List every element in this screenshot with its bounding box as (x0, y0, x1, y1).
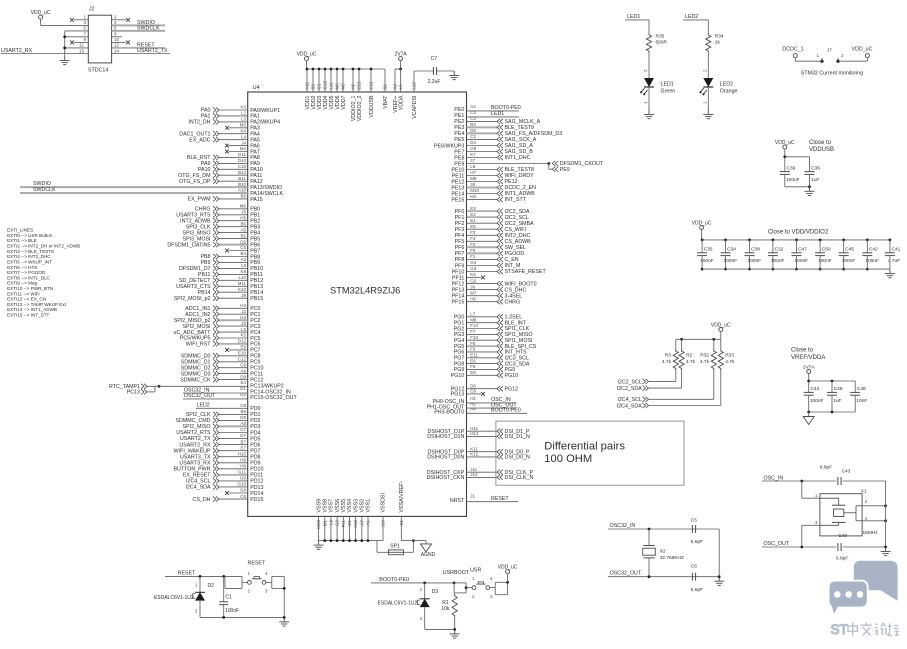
pin PA11 (B12) (178, 170, 262, 179)
pin DSIHOST_CKP (J11) (427, 467, 534, 476)
wire VDDUSB cap rail (783, 155, 809, 171)
pin PD8 (H10) (180, 451, 261, 460)
svg-text:C4: C4 (470, 110, 476, 115)
svg-text:D3: D3 (470, 128, 476, 133)
pin VSS2 (A7) (359, 499, 365, 542)
pin PF13 (J6) (452, 284, 527, 293)
svg-text:A1: A1 (365, 520, 370, 526)
svg-text:C32: C32 (775, 247, 784, 253)
svg-text:G3: G3 (470, 266, 477, 271)
svg-text:J8: J8 (470, 182, 475, 187)
note box differential pairs 100 OHM (496, 421, 684, 485)
pin PE8 (K7) (454, 152, 530, 161)
svg-text:I2C4_SCL: I2C4_SCL (617, 397, 641, 403)
pin PB15 (J9) (174, 293, 264, 302)
svg-text:VDDA: VDDA (399, 95, 405, 110)
svg-text:C12: C12 (238, 357, 247, 362)
svg-text:VSSDSI: VSSDSI (381, 493, 387, 512)
pin PH1-OSC_OUT (H2) / net OSC_OUT (427, 401, 518, 410)
svg-text:J5: J5 (241, 210, 246, 215)
pin VDD6 (M2) (335, 68, 341, 110)
wire VREF cap rail (807, 380, 855, 393)
pin PG7 (E11) (454, 352, 529, 361)
svg-text:SWDCLK: SWDCLK (33, 187, 56, 193)
capacitor C6 5.6pF (691, 564, 703, 594)
svg-text:F3: F3 (470, 230, 476, 235)
svg-text:1uF: 1uF (811, 177, 819, 183)
svg-text:1k: 1k (715, 40, 721, 46)
note Close to VDD/VDDIO2 (768, 230, 829, 236)
svg-text:B4: B4 (240, 251, 246, 256)
svg-text:EXTI13 --> TAMP;WKUP Ext: EXTI13 --> TAMP;WKUP Ext (7, 302, 67, 307)
watermark logo bubbles (829, 561, 898, 617)
svg-text:VDDUSB: VDDUSB (809, 147, 834, 153)
svg-text:PD4: PD4 (250, 430, 260, 436)
svg-text:R2: R2 (686, 353, 692, 359)
svg-text:C9: C9 (470, 389, 476, 394)
pin PE2 (C3) (454, 116, 540, 125)
net SWDCLK from J2 pin 6 (112, 25, 165, 31)
svg-text:R3: R3 (665, 353, 671, 359)
svg-text:PC13: PC13 (127, 390, 140, 396)
svg-text:VDD_uC: VDD_uC (31, 10, 51, 16)
svg-text:D10: D10 (238, 158, 247, 163)
net SWDIO from J2 pin 4 (112, 20, 165, 26)
connector J2 STDC14 (88, 7, 112, 74)
svg-text:SP1: SP1 (390, 544, 400, 550)
svg-text:J2: J2 (241, 309, 246, 314)
svg-text:PF13: PF13 (452, 287, 465, 293)
svg-text:J1: J1 (470, 494, 475, 499)
ground reset circuit (279, 617, 289, 626)
note EXTI lines table (7, 228, 80, 318)
svg-text:12: 12 (114, 43, 120, 48)
net RESET (reset circuit) (165, 571, 225, 578)
svg-text:LED1: LED1 (627, 14, 640, 20)
svg-text:PF11: PF11 (452, 275, 464, 281)
button USR (USRBOOT) (443, 568, 509, 600)
fuse SP1 (377, 539, 415, 555)
pin PG1 (M8) (454, 317, 527, 326)
svg-text:F7: F7 (470, 329, 476, 334)
svg-text:J3: J3 (241, 321, 246, 326)
pin VSS7 (L6) (328, 499, 334, 542)
svg-text:M12: M12 (316, 520, 321, 529)
pin DSIHOST_CKN (J12) (427, 472, 534, 481)
svg-text:C6: C6 (691, 564, 697, 570)
svg-text:K9: K9 (240, 269, 246, 274)
svg-text:VSS6: VSS6 (335, 499, 341, 513)
svg-text:PD0: PD0 (250, 406, 260, 412)
svg-text:PG12: PG12 (505, 386, 519, 392)
svg-text:F10: F10 (470, 335, 478, 340)
svg-text:PA15: PA15 (250, 197, 263, 203)
capacitor C42 100nF (862, 239, 879, 271)
svg-text:H7: H7 (470, 170, 476, 175)
pin PA3 (M3) (225, 123, 260, 132)
net BOOT0-PE0 (boot circuit) (371, 577, 456, 584)
pin PB8 (B4) (200, 251, 260, 260)
svg-text:SPI2_MOSI_p2: SPI2_MOSI_p2 (174, 296, 211, 302)
svg-text:D12: D12 (238, 339, 247, 344)
J2 ground bus pins 5,7,9,11 (63, 26, 88, 56)
svg-text:A2: A2 (470, 104, 476, 109)
svg-text:STSAFE_RESET: STSAFE_RESET (505, 269, 547, 275)
svg-text:DFSDM1_DATIN5: DFSDM1_DATIN5 (167, 242, 210, 248)
svg-text:C8: C8 (240, 403, 246, 408)
svg-text:G11: G11 (238, 470, 247, 475)
svg-text:C11: C11 (369, 81, 374, 89)
svg-text:USR: USR (470, 568, 481, 574)
pin PA15 (B9) (188, 194, 263, 203)
pin VDD4 (G12) (323, 68, 329, 110)
pin PA10 (C10) (198, 164, 263, 173)
svg-text:EXTI2 --> INT2_DH or INT2_ADWB: EXTI2 --> INT2_DH or INT2_ADWB (7, 244, 80, 249)
svg-text:VDD7: VDD7 (341, 95, 347, 109)
wire LED to ground (702, 87, 708, 110)
svg-text:C1: C1 (225, 595, 232, 601)
svg-text:D9: D9 (240, 374, 246, 379)
pin VSS1 (A1) (365, 499, 371, 542)
net LED2 (683, 14, 708, 33)
svg-text:16MHz: 16MHz (863, 530, 879, 536)
svg-text:K10: K10 (238, 287, 247, 292)
svg-text:PG10: PG10 (505, 373, 519, 379)
svg-text:M2: M2 (335, 83, 340, 90)
svg-text:C41: C41 (892, 247, 901, 253)
svg-text:E6: E6 (470, 358, 476, 363)
pin PE11 (H7) (452, 170, 534, 179)
pin PC3 (J3) (183, 321, 261, 330)
svg-text:K12: K12 (470, 452, 479, 457)
svg-text:NRST: NRST (450, 498, 465, 504)
net I2C2_SDA to R2 (617, 371, 682, 393)
svg-text:USART2_TX: USART2_TX (180, 436, 211, 442)
pin PA0/WKUP1 (K3) (201, 105, 280, 114)
svg-text:PE5: PE5 (454, 137, 464, 143)
svg-text:H3: H3 (240, 303, 246, 308)
wire VDDIO2 top rail (702, 239, 890, 241)
pin PB11 (K9) (198, 269, 263, 278)
pin PB13 (M11) (176, 281, 263, 290)
svg-text:PF3: PF3 (455, 227, 465, 233)
svg-text:10k: 10k (441, 606, 450, 612)
svg-text:5.6pF: 5.6pF (691, 539, 703, 545)
capacitor C36 1uF (805, 166, 821, 187)
svg-text:PE14: PE14 (451, 191, 464, 197)
svg-text:C49: C49 (838, 533, 847, 539)
svg-text:B11: B11 (238, 176, 246, 181)
wire boot ground rail (425, 628, 456, 631)
svg-text:I2C2_SCL: I2C2_SCL (505, 215, 529, 221)
pin PB1 (J5) (176, 210, 260, 219)
LED LED2 Orange (700, 78, 738, 95)
svg-text:EXTI10 --> PWR_BTN: EXTI10 --> PWR_BTN (7, 286, 53, 291)
svg-text:A8: A8 (240, 421, 246, 426)
svg-text:ST: ST (831, 622, 848, 637)
LED LED1 Green (641, 78, 676, 95)
svg-text:R33: R33 (725, 353, 734, 359)
pin PC9 (C12) (181, 357, 261, 366)
svg-text:F2: F2 (470, 242, 476, 247)
svg-text:B9: B9 (240, 194, 246, 199)
svg-text:C47: C47 (798, 247, 807, 253)
pin PC10 (C9) (181, 362, 264, 371)
pin VDD1 (A11) (305, 68, 311, 110)
svg-text:R32: R32 (700, 353, 709, 359)
svg-text:M8: M8 (470, 317, 477, 322)
net RESET from J2 pin 12 (112, 42, 165, 48)
ground at C7 (449, 71, 459, 80)
pin VSS6 (G2) (335, 499, 341, 542)
svg-text:F6: F6 (470, 364, 476, 369)
pin PD11 (G11) (183, 470, 263, 479)
svg-text:E1: E1 (470, 218, 476, 223)
svg-text:6.8pF: 6.8pF (820, 465, 832, 471)
svg-text:C36: C36 (811, 166, 820, 172)
pin PD15 (C6) (193, 494, 264, 503)
svg-text:M1: M1 (322, 520, 327, 527)
pin PC14-OSC32_IN (D1) / net OSC32_IN (183, 386, 291, 395)
svg-text:B10: B10 (238, 182, 247, 187)
resistor R33 4.7k (718, 349, 735, 371)
svg-text:11: 11 (79, 43, 84, 48)
net OSC_OUT (762, 541, 887, 548)
pin PF15 (H6) (452, 296, 520, 305)
svg-text:G2: G2 (335, 520, 340, 527)
connector J7 STM32 current monitoring (782, 47, 872, 77)
ground at VSS rail (314, 541, 324, 550)
svg-text:RESET: RESET (178, 571, 196, 577)
svg-text:C1: C1 (347, 520, 352, 526)
pin VCAPDSI (L12) / capacitor C7 2.2uF (412, 56, 455, 119)
capacitor C39 100nF (780, 166, 800, 187)
pin PC0 (H3) (185, 303, 260, 312)
svg-text:F1: F1 (470, 254, 476, 259)
svg-text:VSS8: VSS8 (322, 499, 328, 513)
svg-text:L11: L11 (329, 82, 334, 90)
svg-text:G9: G9 (240, 476, 247, 481)
svg-text:A5: A5 (240, 227, 246, 232)
capacitor C48 1uF (827, 386, 843, 412)
pin PE15 (K8) (451, 194, 526, 203)
pin PD0 (C8) / net LED2 (196, 403, 261, 413)
pin PE0 (A2) (454, 104, 521, 113)
svg-text:PD3: PD3 (250, 424, 260, 430)
svg-text:PG13: PG13 (451, 392, 465, 398)
pin PD2 (D8) (175, 415, 260, 424)
svg-text:CS_DHC: CS_DHC (505, 287, 527, 293)
svg-text:STDC14: STDC14 (88, 68, 108, 74)
J2 pin 2 (NC) (112, 15, 130, 22)
svg-text:USART2_RX: USART2_RX (1, 48, 33, 54)
pin PB6 (D5) (167, 239, 260, 248)
pin PD5 (D7) (180, 433, 261, 442)
capacitor C32 100nF (768, 239, 785, 271)
pin PF10 (G3) (452, 266, 547, 275)
capacitor C35 100nF (697, 239, 714, 271)
pin VSS8 (M1) (322, 499, 328, 542)
svg-text:B1: B1 (383, 83, 388, 89)
svg-text:OTG_FS_DP: OTG_FS_DP (179, 179, 211, 185)
wire VDD rail (307, 69, 386, 92)
svg-text:D8: D8 (240, 415, 246, 420)
svg-text:D7: D7 (240, 433, 246, 438)
ground at J2 (60, 56, 70, 65)
svg-text:D1: D1 (240, 386, 246, 391)
svg-text:CHRG: CHRG (505, 299, 521, 305)
svg-text:DSIHOST_CKN: DSIHOST_CKN (427, 475, 465, 481)
ground VDDIO2 caps (885, 269, 895, 278)
svg-text:G10: G10 (237, 482, 246, 487)
wire OSC32 right leg (718, 529, 721, 578)
svg-text:2V7A: 2V7A (394, 51, 407, 57)
svg-text:VDD_uC: VDD_uC (775, 140, 795, 146)
svg-text:EXTI7 --> PGOOD: EXTI7 --> PGOOD (7, 270, 46, 275)
svg-text:L6: L6 (328, 520, 333, 526)
svg-text:DSI_D1_N: DSI_D1_N (505, 434, 530, 440)
capacitor C44 100nF (804, 386, 824, 412)
svg-text:G4: G4 (470, 260, 477, 265)
power VDD_uC (VDDUSB group) (775, 140, 795, 157)
net I2C4_SDA to R33 (617, 371, 721, 410)
svg-text:CS_WIFI: CS_WIFI (505, 227, 526, 233)
svg-text:I2C4_SDA: I2C4_SDA (617, 403, 642, 409)
svg-text:VDD_uC: VDD_uC (711, 322, 731, 328)
pin PG5 (F8) (454, 341, 537, 350)
svg-text:D5: D5 (240, 239, 246, 244)
resistor R1 10k (441, 593, 457, 630)
pin PE7 (G8) (454, 146, 533, 155)
svg-text:ESDALC6V1-1U2: ESDALC6V1-1U2 (378, 600, 418, 606)
svg-text:USART2_TX: USART2_TX (137, 48, 168, 54)
pin PE6/WKUP3 (D4) (434, 140, 533, 149)
ground OSC32 (714, 577, 724, 586)
svg-text:B7: B7 (240, 439, 246, 444)
pin PG2 (F12) (454, 323, 530, 332)
svg-text:USART2_RX: USART2_RX (179, 442, 211, 448)
wire LED to ground (643, 87, 649, 110)
svg-text:DSI_D0_N: DSI_D0_N (505, 455, 530, 461)
resistor R35 560R (646, 33, 667, 53)
pin PF6 (F2) (455, 242, 526, 251)
power VDD_uC (VDDIO2 group) (692, 220, 712, 240)
pin DSIHOST_D0N (K12) (427, 452, 530, 461)
svg-text:Orange: Orange (720, 89, 738, 95)
svg-text:M6: M6 (240, 204, 247, 209)
crystal X2 32.768KHZ (643, 529, 684, 577)
net USART2_RX into J2 pin 13 (1, 48, 88, 54)
resistor R32 4.7k (700, 349, 716, 371)
svg-text:EXTI5 --> WKUP_INT: EXTI5 --> WKUP_INT (7, 260, 52, 265)
pin PF5 (F4) (455, 236, 532, 245)
wire VSS rail (319, 541, 377, 553)
wire R35 to LED1 (643, 53, 649, 78)
svg-text:A4: A4 (470, 407, 476, 412)
svg-text:EXTI9 --> Mag: EXTI9 --> Mag (7, 281, 37, 286)
pin PA9 (D10) (201, 158, 260, 167)
svg-text:C42: C42 (869, 247, 878, 253)
svg-text:Close to: Close to (791, 348, 814, 354)
svg-text:E4: E4 (240, 380, 246, 385)
svg-text:4.7k: 4.7k (700, 359, 710, 365)
svg-text:STM32 Current monitoring: STM32 Current monitoring (801, 71, 863, 77)
svg-text:C5: C5 (691, 518, 697, 524)
resistor R34 1k (706, 33, 724, 53)
pin PF14 (M7) (452, 290, 523, 299)
svg-text:K6: K6 (470, 272, 476, 277)
svg-text:PF15: PF15 (452, 300, 465, 306)
pin PE10 (L8) (451, 164, 534, 173)
svg-text:C38: C38 (751, 247, 760, 253)
svg-text:PD8: PD8 (250, 455, 260, 461)
net OSC32_IN (608, 523, 719, 530)
svg-text:C35: C35 (704, 247, 713, 253)
svg-text:LED2: LED2 (197, 403, 210, 409)
pin PD7 (E7) (174, 445, 261, 454)
svg-text:STM32L4R9ZIJ6: STM32L4R9ZIJ6 (330, 286, 400, 296)
svg-text:Close to: Close to (809, 140, 832, 146)
svg-text:M10: M10 (470, 188, 479, 193)
pin PH3-BOOT0 (A4) / net BOOT0-PE0 (434, 407, 527, 416)
pin VDDIO2_2 (E12) (357, 68, 363, 122)
pin PA5 (L4) (189, 134, 260, 143)
pin PB14 (K10) (198, 287, 264, 296)
svg-text:EXTI0 --> USR Button: EXTI0 --> USR Button (7, 233, 53, 238)
svg-text:2V7A: 2V7A (803, 364, 816, 370)
pin PA13/SWDIO (B10) / net SWDIO (20, 181, 282, 191)
svg-text:G1: G1 (317, 83, 322, 90)
svg-text:J10: J10 (381, 520, 386, 528)
pin PC11 (A9) (181, 368, 263, 377)
pin DSIHOST_D1P (H11) (428, 426, 530, 435)
pin VDDA (L1) (398, 69, 404, 110)
svg-text:LED2: LED2 (720, 82, 733, 88)
svg-text:CS_DH: CS_DH (193, 497, 211, 503)
pin VSSA/VREF- (K1) (399, 481, 426, 541)
svg-text:D11: D11 (238, 152, 246, 157)
svg-text:OSC32_IN: OSC32_IN (610, 523, 636, 529)
svg-text:LED1: LED1 (491, 111, 504, 117)
pin PF8 (F1) (455, 254, 519, 263)
svg-text:10nF: 10nF (856, 398, 867, 404)
pin PF2 (E1) (455, 218, 535, 227)
svg-text:4.7k: 4.7k (686, 359, 696, 365)
svg-text:K3: K3 (240, 105, 246, 110)
note Close to VDDUSB (809, 140, 834, 153)
svg-text:B5: B5 (240, 233, 246, 238)
svg-text:I2C2_SCL: I2C2_SCL (617, 379, 641, 385)
svg-text:E2: E2 (470, 212, 476, 217)
svg-text:H4: H4 (240, 315, 246, 320)
svg-text:C7: C7 (240, 427, 246, 432)
svg-text:M11: M11 (238, 281, 247, 286)
pin PE3 (B3) (454, 122, 534, 131)
capacitor C5 5.6pF (691, 518, 703, 546)
svg-text:13: 13 (79, 48, 85, 53)
pin PF3 (E5) (455, 224, 526, 233)
pin PF12 (G5) (452, 278, 537, 287)
svg-text:B8: B8 (240, 409, 246, 414)
svg-text:L4: L4 (241, 134, 247, 139)
pin PB9 (A3) (200, 257, 260, 266)
svg-text:X1: X1 (861, 488, 867, 494)
svg-text:E12: E12 (357, 81, 362, 90)
pin PA1 (L2) (201, 111, 260, 120)
svg-text:PF6: PF6 (455, 245, 465, 251)
svg-text:VSS4: VSS4 (347, 499, 353, 513)
pin PC1 (J2) (185, 309, 260, 318)
